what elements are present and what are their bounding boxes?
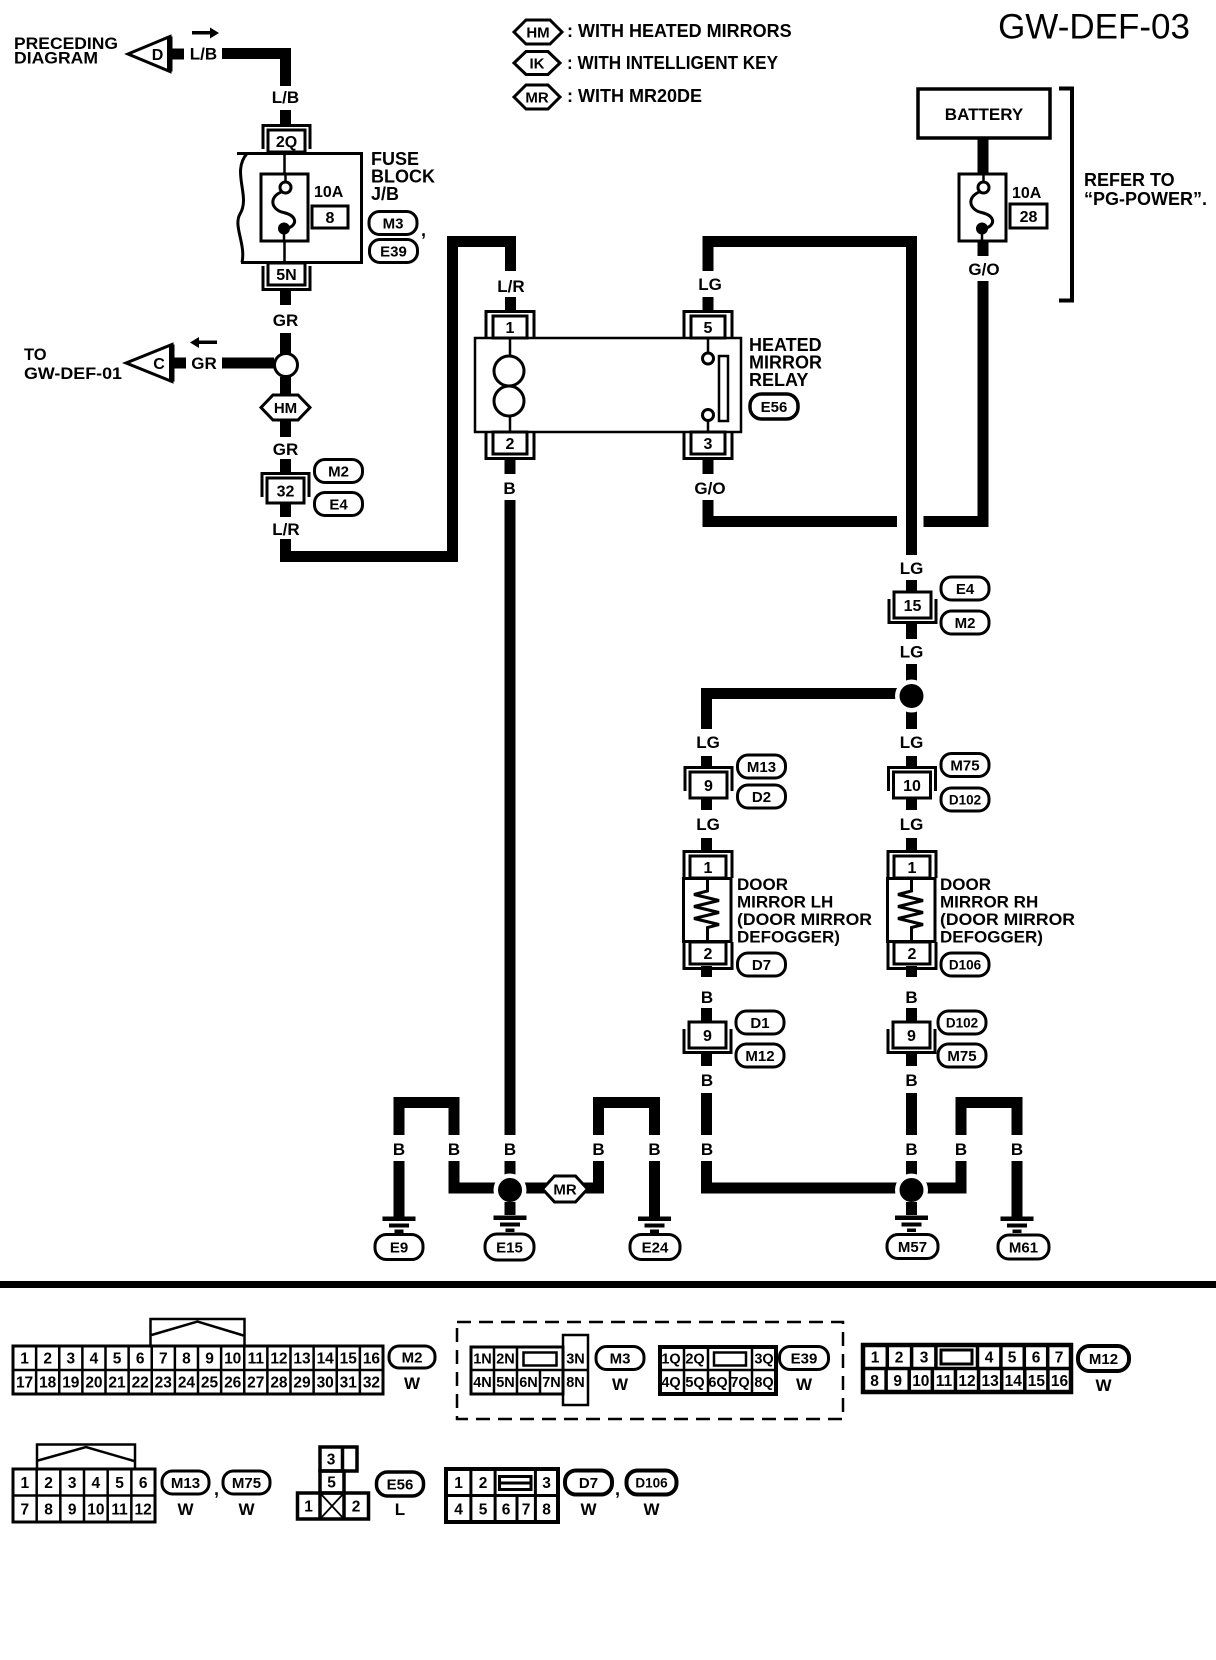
- wire below connector 9 upper: [701, 798, 712, 810]
- svg-text:11: 11: [936, 1373, 953, 1390]
- svg-text:6Q: 6Q: [708, 1375, 727, 1391]
- svg-text:D106: D106: [635, 1475, 668, 1490]
- fuse 28 10A: [959, 174, 1006, 241]
- svg-text:E39: E39: [791, 1350, 818, 1367]
- junction dot LG: [895, 680, 928, 713]
- pinout label M75 oval: [223, 1471, 270, 1494]
- svg-text:3: 3: [704, 436, 713, 453]
- pinout label D7 oval: [565, 1471, 612, 1495]
- svg-text:L/R: L/R: [272, 520, 299, 539]
- svg-text:M75: M75: [947, 1048, 976, 1065]
- svg-text:LG: LG: [900, 643, 924, 662]
- svg-text:DEFOGGER): DEFOGGER): [737, 928, 840, 947]
- svg-text:24: 24: [178, 1375, 196, 1392]
- svg-text:E39: E39: [380, 243, 407, 260]
- svg-text:D7: D7: [579, 1475, 598, 1492]
- wire B mirror RH down: [906, 1093, 917, 1135]
- svg-text:21: 21: [108, 1375, 126, 1392]
- svg-text:1: 1: [506, 320, 515, 337]
- connector label E56 oval: [750, 394, 798, 419]
- svg-text:8: 8: [542, 1502, 551, 1519]
- svg-text:W: W: [796, 1375, 813, 1394]
- connector 5N: [263, 266, 310, 290]
- svg-text:LG: LG: [900, 815, 924, 834]
- bracket refer to pg-power: [1059, 89, 1072, 301]
- svg-text:1Q: 1Q: [661, 1352, 680, 1368]
- svg-text:25: 25: [201, 1375, 219, 1392]
- svg-text:10A: 10A: [1012, 185, 1042, 202]
- ground label E9 oval: [375, 1235, 423, 1260]
- door mirror RH pin 1: [888, 852, 936, 879]
- svg-text:10: 10: [912, 1373, 929, 1390]
- svg-text:7N: 7N: [542, 1375, 561, 1391]
- connector 9 lower LH: [684, 1029, 731, 1053]
- wire below connector 9 lower RH: [906, 1054, 917, 1066]
- svg-text:17: 17: [16, 1375, 33, 1392]
- pinout label M2 oval: [389, 1346, 435, 1368]
- connector label D1 oval: [736, 1011, 784, 1034]
- connector label D102 oval: [941, 788, 989, 811]
- svg-text:1: 1: [21, 1475, 30, 1492]
- svg-text:M57: M57: [898, 1239, 927, 1256]
- svg-text:B: B: [955, 1140, 967, 1159]
- svg-text:3: 3: [67, 1351, 76, 1368]
- svg-text:15: 15: [340, 1351, 358, 1368]
- wire stub into connector 10: [906, 756, 917, 767]
- wire node to HM: [280, 377, 291, 396]
- svg-text:B: B: [701, 1140, 713, 1159]
- svg-text:1: 1: [908, 860, 917, 877]
- svg-text:W: W: [177, 1500, 194, 1519]
- svg-text:E4: E4: [329, 496, 348, 513]
- svg-text:8: 8: [44, 1501, 53, 1518]
- pinout M2 hood: [151, 1319, 245, 1346]
- svg-text:B: B: [448, 1140, 460, 1159]
- ground E15: [494, 1216, 527, 1221]
- svg-text:10: 10: [87, 1501, 104, 1518]
- svg-text:(DOOR MIRROR: (DOOR MIRROR: [940, 910, 1075, 929]
- relay pin 3: [684, 432, 732, 459]
- svg-text:3Q: 3Q: [754, 1352, 773, 1368]
- svg-text:(DOOR MIRROR: (DOOR MIRROR: [737, 910, 872, 929]
- svg-text:HM: HM: [274, 400, 297, 417]
- svg-text:DEFOGGER): DEFOGGER): [940, 928, 1043, 947]
- svg-text:9: 9: [893, 1373, 902, 1390]
- door mirror LH pin 2: [684, 942, 732, 969]
- symbol MR inline: [543, 1176, 588, 1202]
- svg-text:,: ,: [214, 1479, 219, 1499]
- svg-text:TO: TO: [24, 346, 47, 364]
- svg-text:D102: D102: [946, 1015, 978, 1030]
- connector label E39 oval: [370, 240, 418, 263]
- svg-text:GR: GR: [191, 354, 217, 373]
- wire arch right leg to bus: [449, 1161, 460, 1194]
- pinout label E39 oval: [780, 1347, 829, 1370]
- relay coil: [509, 338, 512, 357]
- svg-text:W: W: [643, 1500, 660, 1519]
- svg-text:2Q: 2Q: [276, 134, 297, 151]
- svg-text:GR: GR: [273, 440, 299, 459]
- wire LG branch left: [701, 688, 900, 699]
- svg-text:HM: HM: [526, 24, 549, 41]
- svg-text:,: ,: [421, 220, 426, 240]
- svg-text:8N: 8N: [566, 1375, 585, 1391]
- svg-text:5: 5: [327, 1475, 336, 1492]
- symbol HM inline: [261, 395, 310, 420]
- svg-text:B: B: [905, 1071, 917, 1090]
- wire MR arch to E24: [593, 1161, 604, 1194]
- junction dot E15: [494, 1174, 527, 1207]
- svg-text:: WITH MR20DE: : WITH MR20DE: [567, 86, 702, 106]
- ground label M57 oval: [887, 1235, 938, 1259]
- svg-text:L: L: [395, 1500, 405, 1519]
- pinout connector E56: [320, 1447, 357, 1471]
- wire jumper E9 arch: [394, 1103, 405, 1136]
- svg-text:4: 4: [454, 1502, 463, 1519]
- door mirror RH pin 2: [888, 942, 936, 969]
- connector label M75 oval: [941, 754, 989, 777]
- connector 9 upper: [685, 768, 732, 792]
- svg-text:M12: M12: [1089, 1351, 1118, 1368]
- svg-text:3: 3: [542, 1475, 551, 1492]
- ground M61: [1001, 1217, 1034, 1222]
- connector label M2 oval right: [941, 611, 989, 634]
- svg-text:5N: 5N: [496, 1375, 515, 1391]
- connector label M13 oval: [738, 755, 786, 778]
- wire stub into connector 15: [906, 580, 917, 593]
- svg-text:2: 2: [44, 1475, 53, 1492]
- connector label M3 oval: [369, 212, 417, 235]
- svg-text:3: 3: [68, 1475, 77, 1492]
- svg-text:LG: LG: [900, 733, 924, 752]
- connector label M2 oval: [315, 460, 363, 483]
- wire below mirror RH: [906, 966, 917, 977]
- ground label M61 oval: [998, 1235, 1049, 1259]
- wire stub below pin 3: [703, 459, 714, 474]
- svg-text:5N: 5N: [276, 267, 296, 284]
- separator line: [0, 1281, 1216, 1288]
- svg-text:B: B: [393, 1140, 405, 1159]
- svg-text:IK: IK: [530, 55, 545, 72]
- connector label D7 oval: [738, 953, 786, 976]
- svg-text:18: 18: [39, 1375, 57, 1392]
- svg-text:2: 2: [352, 1499, 361, 1516]
- wire GR to connector 32: [280, 459, 291, 473]
- fuse block J/B outline: [237, 154, 362, 263]
- svg-text:5Q: 5Q: [685, 1375, 704, 1391]
- wire stub into connector 9 upper: [701, 756, 712, 767]
- svg-text:D: D: [152, 47, 164, 64]
- svg-text:,: ,: [615, 1479, 620, 1499]
- door mirror RH body: [888, 879, 936, 942]
- wire E15 junction to ground: [505, 1202, 516, 1215]
- svg-text:11: 11: [248, 1351, 265, 1368]
- wire stub below 5N: [280, 289, 291, 305]
- svg-text:15: 15: [1028, 1373, 1046, 1390]
- svg-text:B: B: [503, 479, 515, 498]
- pinout connector M13 12-pin: [35, 1469, 38, 1522]
- connector label D102 oval lower: [938, 1011, 986, 1034]
- pinout connector M12 16-pin: [886, 1345, 890, 1369]
- svg-text:DOOR: DOOR: [940, 875, 991, 894]
- wire into mirror LH pin 1: [701, 838, 712, 851]
- ground label E24 oval: [630, 1235, 680, 1260]
- door mirror RH heater element: [898, 879, 923, 943]
- svg-text:5: 5: [115, 1475, 124, 1492]
- svg-text:DIAGRAM: DIAGRAM: [14, 49, 98, 68]
- connector 10: [889, 768, 936, 792]
- svg-text:M3: M3: [610, 1350, 631, 1367]
- wire into M57 junction: [906, 1161, 917, 1185]
- svg-text:7Q: 7Q: [730, 1375, 749, 1391]
- wire below connector 10: [906, 798, 917, 810]
- svg-text:M3: M3: [383, 215, 404, 232]
- door mirror LH body: [684, 879, 732, 942]
- wire into fuse F1: [283, 153, 286, 174]
- svg-text:B: B: [504, 1140, 516, 1159]
- wire bus M57 to M61 arch: [923, 1183, 967, 1194]
- pinout connector M3 8-pin: [493, 1347, 496, 1370]
- svg-text:M75: M75: [950, 757, 979, 774]
- wire B into E15 junction: [505, 1161, 516, 1185]
- wire into connector 9 lower RH: [906, 1008, 917, 1023]
- wire below 32: [280, 503, 291, 517]
- svg-text:“PG-POWER”.: “PG-POWER”.: [1084, 189, 1207, 209]
- wire E24 leg to ground: [649, 1161, 660, 1217]
- connector label M12 oval: [736, 1044, 784, 1067]
- pinout connector D7 8-pin: [469, 1469, 472, 1496]
- pinout M13 hood: [37, 1445, 135, 1470]
- svg-text:LG: LG: [696, 733, 720, 752]
- svg-text:J/B: J/B: [371, 184, 399, 204]
- svg-text:W: W: [404, 1374, 421, 1393]
- svg-text:14: 14: [1005, 1373, 1023, 1390]
- svg-text:MR: MR: [525, 89, 548, 106]
- svg-text:10: 10: [903, 778, 921, 795]
- node circle GR junction: [275, 354, 298, 377]
- wire GR above node: [280, 333, 291, 354]
- off-page connector D: [128, 37, 170, 72]
- wire LG loop from pin5 to long vertical: [703, 242, 714, 272]
- wire HM to GR label: [280, 419, 291, 437]
- svg-text:2: 2: [895, 1350, 904, 1367]
- svg-text:1: 1: [454, 1475, 463, 1492]
- svg-text:8: 8: [182, 1351, 191, 1368]
- wire LG long vertical: [906, 242, 917, 556]
- svg-text:D7: D7: [752, 957, 771, 974]
- svg-text:2: 2: [908, 946, 917, 963]
- connector 15: [889, 599, 936, 623]
- svg-text:28: 28: [270, 1375, 288, 1392]
- svg-text:32: 32: [363, 1375, 380, 1392]
- svg-text:D102: D102: [949, 792, 981, 807]
- svg-text:5: 5: [1008, 1350, 1017, 1367]
- relay pin 2: [486, 432, 534, 459]
- wire stub to 2Q: [280, 110, 291, 124]
- connector label E4 oval right: [941, 577, 989, 600]
- svg-text:L/B: L/B: [272, 88, 299, 107]
- svg-text:12: 12: [270, 1351, 287, 1368]
- svg-text:7: 7: [1055, 1350, 1064, 1367]
- connector label M75 oval lower: [938, 1044, 986, 1067]
- off-page connector C: [126, 345, 172, 382]
- svg-text:E9: E9: [390, 1239, 408, 1256]
- svg-text:LG: LG: [698, 275, 722, 294]
- wire stub above pin 5: [703, 297, 714, 312]
- svg-text:6: 6: [136, 1351, 145, 1368]
- svg-text:8: 8: [870, 1373, 879, 1390]
- svg-text:C: C: [153, 356, 165, 373]
- svg-text:L/R: L/R: [497, 277, 524, 296]
- svg-text:GW-DEF-03: GW-DEF-03: [998, 8, 1190, 47]
- svg-text:E4: E4: [956, 581, 975, 598]
- svg-text:M75: M75: [232, 1475, 261, 1492]
- svg-text:BATTERY: BATTERY: [945, 105, 1024, 124]
- svg-text:1N: 1N: [473, 1352, 492, 1368]
- legend symbol IK: [514, 52, 560, 75]
- svg-text:7: 7: [522, 1502, 531, 1519]
- svg-text:REFER TO: REFER TO: [1084, 170, 1175, 190]
- svg-text:4N: 4N: [473, 1375, 492, 1391]
- relay pin 5: [684, 312, 732, 339]
- wire B long vertical: [505, 500, 516, 1135]
- svg-text:14: 14: [317, 1351, 335, 1368]
- wire E9 leg to ground: [394, 1161, 405, 1217]
- wire L/B from D to 2Q: [222, 48, 291, 59]
- svg-text:G/O: G/O: [694, 479, 725, 498]
- svg-text:23: 23: [155, 1375, 173, 1392]
- wire L/R loop to relay pin 1: [280, 539, 291, 562]
- svg-text:B: B: [592, 1140, 604, 1159]
- svg-text:30: 30: [317, 1375, 334, 1392]
- svg-text:7: 7: [159, 1351, 168, 1368]
- wire G/O to battery feed: [703, 500, 714, 527]
- svg-text:9: 9: [205, 1351, 214, 1368]
- pinout label D106 oval: [627, 1471, 677, 1495]
- connector 32: [262, 474, 309, 498]
- svg-text:6: 6: [1032, 1350, 1041, 1367]
- wire into connector 9 lower LH: [701, 1008, 712, 1023]
- svg-text:1: 1: [304, 1499, 313, 1516]
- wire bus E15 to MR: [522, 1183, 604, 1194]
- svg-text:10: 10: [224, 1351, 241, 1368]
- svg-text:13: 13: [293, 1351, 311, 1368]
- svg-text:9: 9: [703, 1028, 712, 1045]
- svg-text:2Q: 2Q: [685, 1352, 704, 1368]
- dashed box M3 E39: [457, 1322, 843, 1419]
- junction dot M57: [895, 1174, 928, 1207]
- svg-text:29: 29: [293, 1375, 311, 1392]
- svg-text:5: 5: [704, 320, 713, 337]
- svg-text:2: 2: [479, 1475, 488, 1492]
- fuse F1 10A: [261, 174, 308, 241]
- wire C to node: [222, 358, 274, 369]
- svg-text:2: 2: [43, 1351, 52, 1368]
- wire LG branch right stub: [906, 707, 917, 729]
- svg-text:31: 31: [340, 1375, 358, 1392]
- wire below connector 9 lower LH: [701, 1054, 712, 1066]
- svg-text:10A: 10A: [314, 184, 344, 201]
- svg-text:1: 1: [20, 1351, 29, 1368]
- svg-text:20: 20: [85, 1375, 102, 1392]
- svg-text:32: 32: [277, 483, 295, 500]
- svg-text:3: 3: [920, 1350, 929, 1367]
- arrow right: [192, 28, 219, 39]
- wire B mirror LH down: [701, 1093, 712, 1135]
- battery box: [918, 89, 1050, 138]
- svg-text:16: 16: [363, 1351, 381, 1368]
- wire LG into junction: [906, 664, 917, 685]
- svg-text:28: 28: [1020, 209, 1038, 226]
- svg-text:GW-DEF-01: GW-DEF-01: [24, 365, 122, 383]
- svg-text:M2: M2: [328, 463, 349, 480]
- svg-text:2: 2: [506, 436, 515, 453]
- svg-text:26: 26: [224, 1375, 242, 1392]
- svg-text:8: 8: [326, 210, 335, 227]
- svg-text:B: B: [1011, 1140, 1023, 1159]
- svg-text:MIRROR LH: MIRROR LH: [737, 893, 833, 912]
- svg-text:4: 4: [90, 1351, 99, 1368]
- svg-text:2: 2: [704, 946, 713, 963]
- svg-text:: WITH HEATED MIRRORS: : WITH HEATED MIRRORS: [567, 21, 792, 41]
- svg-text:4: 4: [92, 1475, 101, 1492]
- wire stub to relay pin 1: [505, 297, 516, 312]
- svg-text:3: 3: [327, 1452, 336, 1469]
- legend symbol MR: [514, 85, 560, 109]
- svg-text:D1: D1: [750, 1015, 769, 1032]
- legend symbol HM: [514, 20, 562, 44]
- svg-text:12: 12: [958, 1373, 975, 1390]
- wire below mirror LH: [701, 966, 712, 977]
- wire M61 leg to ground: [1012, 1161, 1023, 1217]
- wire battery to fuse: [978, 138, 989, 174]
- pinout label E56 oval: [377, 1472, 424, 1496]
- svg-text:M2: M2: [402, 1349, 423, 1366]
- fuse number box 8: [312, 206, 348, 228]
- wire fuse to 5N: [283, 241, 286, 263]
- svg-text:W: W: [1095, 1376, 1112, 1395]
- connector label E4 oval: [315, 493, 363, 516]
- svg-text:D2: D2: [752, 789, 771, 806]
- svg-text:1: 1: [704, 860, 713, 877]
- svg-text:B: B: [648, 1140, 660, 1159]
- svg-text:6: 6: [502, 1502, 511, 1519]
- svg-text:LG: LG: [900, 559, 924, 578]
- svg-text:MIRROR RH: MIRROR RH: [940, 893, 1038, 912]
- wire M57 junction to ground: [906, 1202, 917, 1215]
- svg-text:27: 27: [247, 1375, 264, 1392]
- svg-text:L/B: L/B: [190, 45, 217, 64]
- pinout connector E39 8-pin: [683, 1347, 686, 1370]
- svg-text:4Q: 4Q: [661, 1375, 680, 1391]
- svg-text:9: 9: [704, 778, 713, 795]
- wire below fuse 28: [978, 241, 989, 256]
- svg-text:12: 12: [135, 1501, 152, 1518]
- svg-text:D106: D106: [949, 957, 982, 972]
- wire into mirror RH pin 1: [906, 838, 917, 851]
- svg-text:22: 22: [132, 1375, 149, 1392]
- svg-text:6: 6: [139, 1475, 148, 1492]
- relay pin 1: [486, 312, 534, 339]
- svg-text:B: B: [701, 1071, 713, 1090]
- svg-text:E24: E24: [642, 1239, 669, 1256]
- fuse number box 28: [1010, 204, 1047, 228]
- svg-text:8Q: 8Q: [754, 1375, 773, 1391]
- connector label D106 oval: [941, 953, 989, 976]
- arrow left: [190, 337, 217, 348]
- svg-text:M12: M12: [745, 1048, 774, 1065]
- svg-text:GR: GR: [273, 311, 299, 330]
